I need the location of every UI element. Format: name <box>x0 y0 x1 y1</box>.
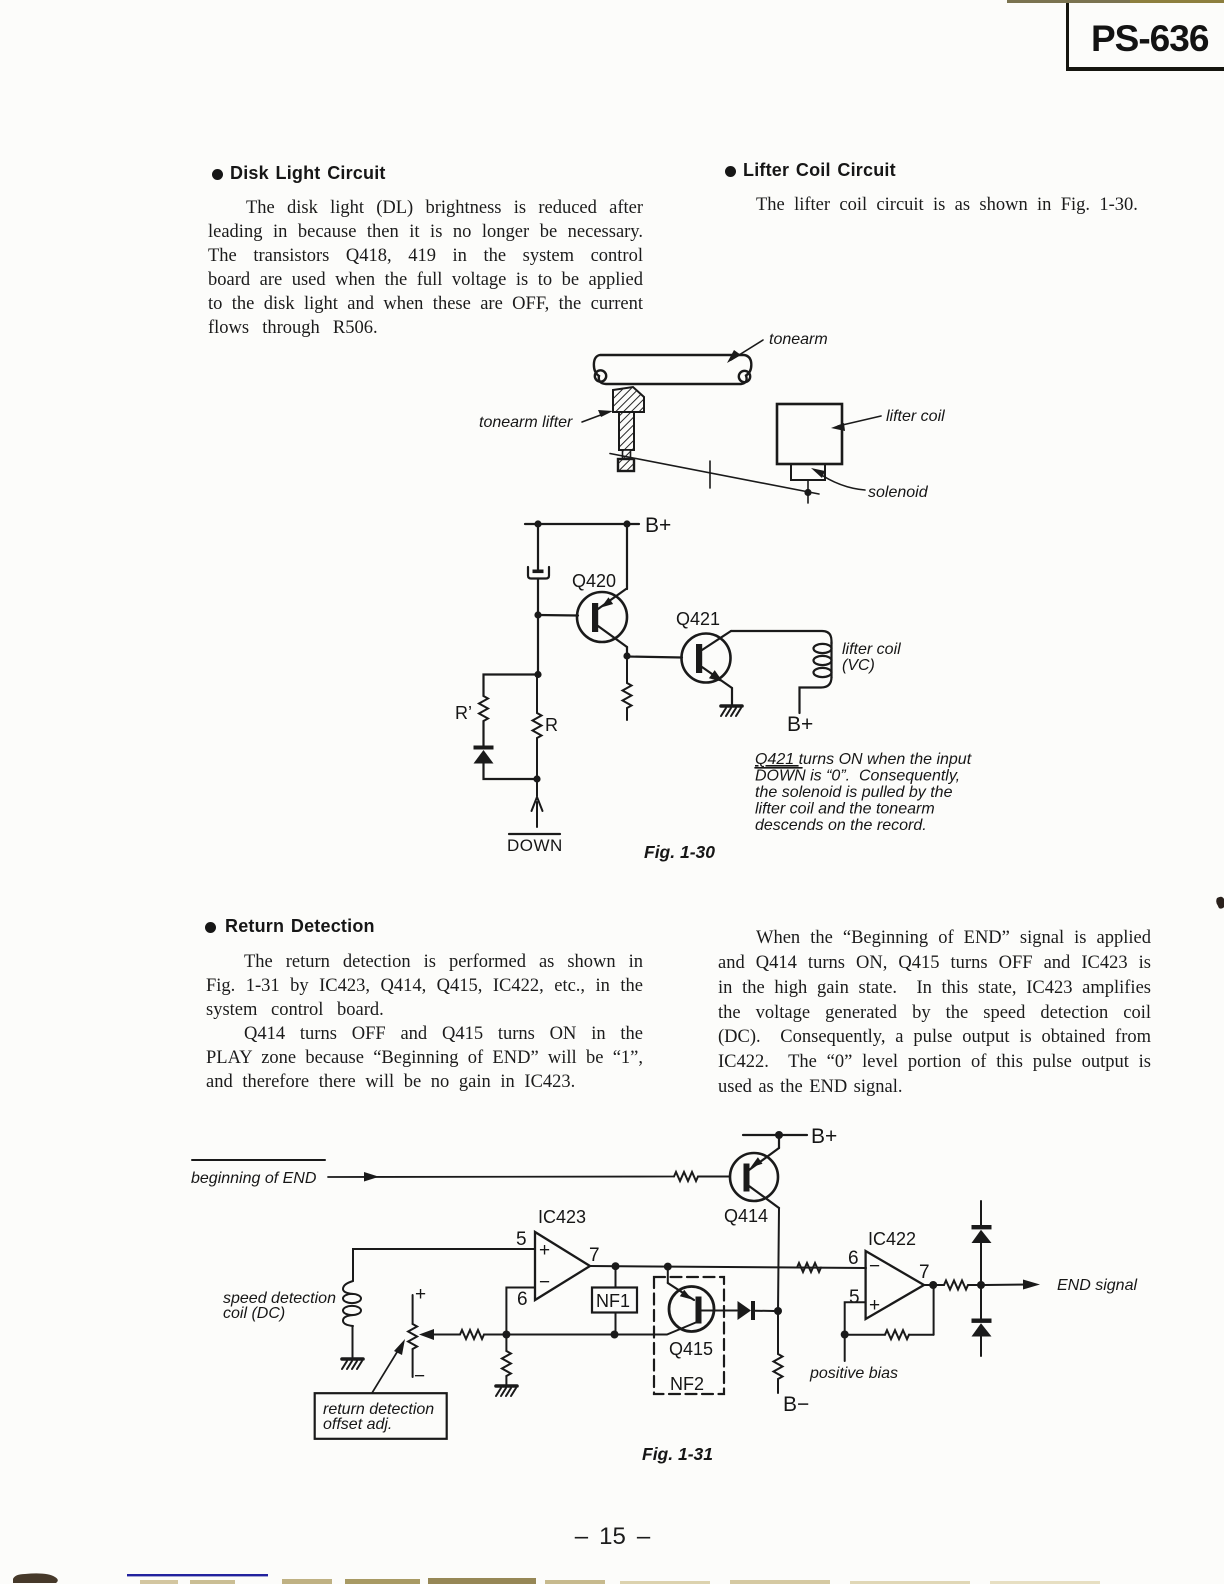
feedback resistor IC422 <box>845 1285 934 1339</box>
node diode junction <box>774 1307 782 1315</box>
svg-text:+: + <box>539 1240 550 1261</box>
wire Q420 collector to node B <box>626 647 628 656</box>
wire resistor to clamp node <box>968 1284 977 1286</box>
resistor below node B <box>623 656 632 720</box>
resistor to B- <box>774 1311 783 1393</box>
tonearm (tube) <box>594 355 751 384</box>
label beginning of END with overline <box>191 1160 325 1187</box>
ink blot right margin <box>1216 897 1224 909</box>
PS-636 model box top right <box>1066 0 1224 71</box>
wire node E to pin6 of IC423 <box>506 1288 535 1335</box>
svg-text:Q414: Q414 <box>724 1206 768 1226</box>
svg-text:Q415: Q415 <box>669 1339 713 1359</box>
NF1 box <box>592 1266 637 1335</box>
svg-text:coil (DC): coil (DC) <box>223 1305 285 1322</box>
resistor (wiper to node E) <box>460 1330 484 1339</box>
section header: Lifter Coil Circuit <box>725 166 736 177</box>
wire pin5 of IC423 <box>353 1249 535 1281</box>
svg-text:DOWN is “0”. Consequently,: DOWN is “0”. Consequently, <box>755 768 960 785</box>
label speed detection coil (DC) <box>223 1290 336 1322</box>
wire diode to bottom <box>484 763 538 779</box>
wire IC423 output line to IC422 <box>590 1266 866 1268</box>
transistor Q414 <box>730 1148 779 1208</box>
svg-text:lifter coil and the tonearm: lifter coil and the tonearm <box>755 801 935 818</box>
wire node C to R' branch <box>484 675 539 697</box>
svg-text:+: + <box>415 1284 426 1305</box>
svg-text:6: 6 <box>517 1289 528 1310</box>
node junction on rail left <box>534 520 541 527</box>
pot wiper arrow and wire <box>419 1329 460 1340</box>
wire Q421 collector to coil <box>731 631 832 644</box>
top edge scan artifact <box>1007 0 1224 3</box>
diode Q415 to node (pointing right) <box>738 1301 775 1320</box>
svg-text:R: R <box>545 715 558 735</box>
svg-text:tonearm: tonearm <box>769 331 828 348</box>
svg-text:lifter coil: lifter coil <box>886 408 945 425</box>
svg-text:Q421 turns ON when the input: Q421 turns ON when the input <box>755 751 972 768</box>
svg-text:B−: B− <box>783 1393 809 1416</box>
node output IC423 / NF1 top <box>612 1262 620 1270</box>
wire pin5 of IC422 feedback <box>845 1302 866 1334</box>
wire Q414 collector down (crosses signal line) <box>778 1208 779 1311</box>
node C (left branch top) <box>534 671 541 678</box>
solenoid plunger <box>791 464 825 480</box>
label DOWN with overline <box>507 834 563 855</box>
wire Q421 emitter to ground <box>731 688 733 705</box>
transistor Q415 <box>668 1267 737 1332</box>
bottom edge scan artifacts <box>13 1573 1100 1584</box>
wire resistor to Q414 base <box>698 1176 730 1178</box>
wire beginning-of-END to R (with arrow) <box>328 1172 674 1182</box>
label lifter coil <box>831 408 945 431</box>
svg-text:IC423: IC423 <box>538 1207 586 1227</box>
svg-text:Q420: Q420 <box>572 571 616 591</box>
svg-text:B+: B+ <box>645 514 671 537</box>
NF2 dashed box <box>654 1277 724 1394</box>
wire rail to capacitor <box>537 524 539 570</box>
section header: Return Detection <box>205 922 216 933</box>
wire output to resistor <box>924 1284 944 1286</box>
page number <box>560 1523 665 1551</box>
svg-text:NF2: NF2 <box>670 1374 704 1394</box>
lifter coil (box) <box>777 404 842 464</box>
wire node A to Q420 base <box>538 614 578 617</box>
svg-text:−: − <box>869 1256 880 1277</box>
op-amp IC423 <box>516 1229 600 1310</box>
inductor speed detection coil <box>343 1281 361 1357</box>
svg-text:5: 5 <box>849 1287 860 1308</box>
wire B+ to Q420 emitter <box>626 524 628 589</box>
wire B+ rail fig1-31 <box>743 1134 807 1136</box>
resistor IC422 output <box>944 1281 968 1290</box>
label lifter coil (VC) <box>842 641 901 674</box>
diode D (R' branch, cathode up) <box>474 746 494 764</box>
svg-text:descends on the record.: descends on the record. <box>755 817 927 834</box>
svg-text:DOWN: DOWN <box>507 836 563 855</box>
svg-text:B+: B+ <box>787 713 813 736</box>
node feedback <box>841 1331 849 1339</box>
wire resistor to node E <box>484 1334 506 1336</box>
paragraph: disk light <box>208 196 643 340</box>
wire capacitor to node A <box>537 579 539 675</box>
tonearm lifter (hatched T) <box>613 387 644 471</box>
ground below node E resistor <box>496 1386 517 1396</box>
op-amp IC422 <box>848 1248 930 1319</box>
svg-text:the solenoid is pulled by the: the solenoid is pulled by the <box>755 784 953 801</box>
paragraph: return detection left column <box>206 950 643 1094</box>
capacitor C (electrolytic) <box>528 567 549 579</box>
svg-text:7: 7 <box>919 1262 930 1283</box>
svg-text:6: 6 <box>848 1248 859 1269</box>
svg-text:END signal: END signal <box>1057 1277 1137 1294</box>
wire END signal with arrow <box>985 1280 1040 1290</box>
svg-text:Q421: Q421 <box>676 609 720 629</box>
svg-text:(VC): (VC) <box>842 657 875 674</box>
transistor Q421 <box>682 631 733 688</box>
node junction on rail right <box>623 520 630 527</box>
svg-text:5: 5 <box>516 1229 527 1250</box>
svg-text:+: + <box>869 1295 880 1316</box>
paragraph: return detection right column <box>718 926 1151 1100</box>
resistor on signal line to IC422 <box>797 1263 821 1272</box>
svg-text:beginning of END: beginning of END <box>191 1170 317 1187</box>
wire DOWN input with arrow <box>532 779 543 827</box>
svg-text:−: − <box>414 1366 425 1387</box>
resistor node E to ground <box>502 1335 511 1386</box>
svg-text:positive bias: positive bias <box>809 1365 898 1382</box>
wire Q414 emitter to B+ <box>778 1135 780 1148</box>
resistor R <box>533 675 542 780</box>
node IC422 output <box>929 1281 937 1289</box>
svg-text:7: 7 <box>589 1245 600 1266</box>
inductor lifter coil VC <box>800 642 832 713</box>
node A (base node) <box>534 611 541 618</box>
svg-text:Fig. 1-30: Fig. 1-30 <box>644 842 715 862</box>
label tonearm lifter <box>479 410 613 431</box>
wire node E to Q415 collector run <box>506 1322 697 1335</box>
svg-text:lifter coil: lifter coil <box>842 641 901 658</box>
paragraph: lifter coil <box>718 193 1151 217</box>
label tonearm <box>727 331 828 363</box>
label solenoid <box>811 468 929 501</box>
wire R' to diode <box>482 721 484 746</box>
node B <box>623 652 630 659</box>
wire node B to Q421 base <box>627 657 682 658</box>
svg-text:tonearm lifter: tonearm lifter <box>479 414 573 431</box>
potentiometer return detection offset <box>408 1295 417 1377</box>
lever line from lifter to solenoid <box>610 454 819 504</box>
node B+ junction <box>775 1131 783 1139</box>
diode clamp lower (cathode up) <box>972 1289 992 1356</box>
svg-text:solenoid: solenoid <box>868 484 929 501</box>
diode clamp upper (cathode up) <box>972 1201 992 1281</box>
svg-text:Fig. 1-31: Fig. 1-31 <box>642 1444 713 1464</box>
ground below speed coil <box>342 1359 363 1369</box>
wire B+ rail fig1-30 <box>525 523 639 525</box>
svg-text:NF1: NF1 <box>596 1291 630 1311</box>
svg-text:−: − <box>539 1272 550 1293</box>
svg-text:offset adj.: offset adj. <box>323 1416 392 1433</box>
svg-text:B+: B+ <box>811 1125 837 1148</box>
node E <box>502 1331 510 1339</box>
section header: Disk Light Circuit <box>212 169 223 180</box>
node clamp <box>977 1281 985 1289</box>
transistor Q420 <box>577 589 627 647</box>
note text beside fig 1-30 <box>755 751 972 834</box>
node D (DOWN node) <box>533 775 540 782</box>
resistor R' <box>479 696 488 721</box>
node NF1 bottom <box>611 1331 619 1339</box>
ground Q421 <box>721 706 742 716</box>
svg-text:R’: R’ <box>455 703 472 723</box>
junction dot under solenoid <box>804 489 811 496</box>
callout box return detection offset adj. <box>315 1339 447 1439</box>
resistor (base of Q414) <box>674 1172 698 1181</box>
positive bias stub <box>844 1335 846 1362</box>
node Q415 emitter tap <box>664 1263 672 1271</box>
svg-text:IC422: IC422 <box>868 1229 916 1249</box>
